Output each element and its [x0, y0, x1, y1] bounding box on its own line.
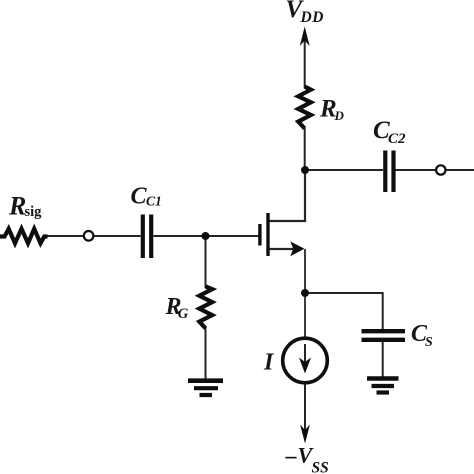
svg-text:G: G [178, 306, 189, 322]
svg-text:C2: C2 [388, 131, 406, 147]
svg-text:SS: SS [312, 460, 329, 474]
svg-text:D: D [334, 108, 345, 123]
svg-text:S: S [425, 335, 433, 350]
svg-text:I: I [263, 350, 275, 376]
svg-text:C1: C1 [146, 194, 162, 209]
svg-text:−: − [284, 446, 299, 472]
svg-text:DD: DD [300, 9, 324, 26]
svg-text:C: C [131, 183, 148, 209]
svg-text:sig: sig [25, 204, 43, 220]
